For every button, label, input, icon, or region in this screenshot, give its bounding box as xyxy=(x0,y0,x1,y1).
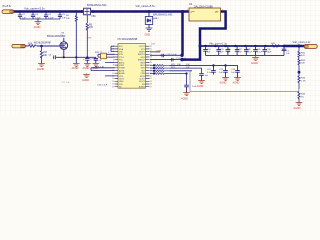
node after FB1 xyxy=(92,10,95,13)
ground AGND at x76 xyxy=(73,64,80,67)
wire bus FB1 to U4 left pin xyxy=(91,10,189,13)
svg-text:AGND: AGND xyxy=(37,68,44,71)
node: bus end dot at net row 1 xyxy=(180,54,183,57)
svg-text:GND: GND xyxy=(156,51,161,53)
svg-text:BRUSHHOL-MG: BRUSHHOL-MG xyxy=(153,12,172,16)
svg-text:SDA: SDA xyxy=(119,48,124,51)
svg-text:AVDD: AVDD xyxy=(119,61,125,64)
wire R16 to gate xyxy=(37,45,62,47)
svg-text:C10 0.1uF: C10 0.1uF xyxy=(97,84,108,86)
svg-text:11: 11 xyxy=(112,73,114,75)
svg-text:R17: R17 xyxy=(43,52,48,54)
svg-text:10K: 10K xyxy=(43,55,48,57)
ground AGND left cluster xyxy=(83,74,90,78)
svg-text:BSS4L200SNWF: BSS4L200SNWF xyxy=(47,35,66,38)
wire Q1 source rail xyxy=(56,49,96,57)
wire Y1 to pins xyxy=(98,54,115,57)
svg-text:AGND: AGND xyxy=(181,98,188,101)
wire rail thick segment into P3 xyxy=(284,45,304,47)
svg-text:Vdc_conn+1.1v: Vdc_conn+1.1v xyxy=(293,40,312,44)
wire ground stub xyxy=(37,19,39,22)
resistor R24 xyxy=(150,73,170,75)
svg-text:AGND: AGND xyxy=(294,107,301,110)
svg-text:BOSHANGL-MG: BOSHANGL-MG xyxy=(87,3,106,7)
svg-text:21: 21 xyxy=(150,76,152,78)
svg-text:SMBJ: SMBJ xyxy=(153,18,159,20)
wire bus vertical drop to U5 pin row xyxy=(181,12,184,56)
U5 internal pin names left column xyxy=(119,46,125,89)
svg-text:R28 4.7K: R28 4.7K xyxy=(95,66,105,68)
capacitor C3 xyxy=(31,12,35,20)
svg-text:AGND: AGND xyxy=(251,62,258,65)
svg-text:SDI: SDI xyxy=(141,70,145,72)
svg-text:2: 2 xyxy=(222,9,223,11)
wire pin row to bus dot 2 xyxy=(150,59,182,61)
svg-text:DIN: DIN xyxy=(119,84,123,86)
wire long bottom net xyxy=(190,71,299,92)
svg-text:C18 0.1uF: C18 0.1uF xyxy=(167,54,178,56)
inductor FB1 xyxy=(84,8,91,15)
capacitor C2 xyxy=(18,12,22,20)
node rail taps xyxy=(204,45,266,47)
node divider junction xyxy=(298,71,301,74)
svg-text:VO: VO xyxy=(215,12,218,14)
svg-text:10K: 10K xyxy=(66,18,70,20)
wire row 65.4 to caps xyxy=(170,64,238,66)
wire row 70.8 right xyxy=(170,70,193,72)
svg-text:VIN: VIN xyxy=(119,52,123,54)
U5 left pins xyxy=(115,46,119,86)
svg-text:AGND: AGND xyxy=(34,26,41,29)
svg-text:U4: U4 xyxy=(189,2,193,6)
node dot at C1 riser xyxy=(283,45,286,48)
svg-text:0.1uF: 0.1uF xyxy=(48,17,54,19)
svg-text:AGND: AGND xyxy=(139,86,145,89)
capacitor C20 xyxy=(199,74,204,81)
svg-text:19: 19 xyxy=(150,81,152,83)
resistor R33 xyxy=(298,72,300,89)
svg-text:1uF: 1uF xyxy=(22,17,26,19)
node C14 tap xyxy=(185,72,187,74)
svg-text:0.1uF: 0.1uF xyxy=(247,52,253,54)
svg-text:STBY: STBY xyxy=(119,65,125,67)
svg-text:16: 16 xyxy=(112,86,114,88)
svg-text:DAL1010+C16B8: DAL1010+C16B8 xyxy=(194,6,213,9)
svg-text:FB1: FB1 xyxy=(92,16,97,18)
svg-text:PGND: PGND xyxy=(119,68,125,70)
ground GND below C23 xyxy=(234,78,241,81)
node gate junction xyxy=(40,45,43,48)
svg-text:AGND: AGND xyxy=(197,85,204,88)
svg-text:31: 31 xyxy=(150,49,152,51)
svg-text:XTLI: XTLI xyxy=(119,54,124,56)
ground below C8 xyxy=(93,64,100,67)
svg-text:GND: GND xyxy=(145,33,151,36)
wire Q1 drain up xyxy=(63,38,65,42)
wire P3 down xyxy=(298,46,300,51)
svg-text:R16: R16 xyxy=(28,44,33,46)
U5 pin numbers right xyxy=(150,46,152,89)
connector P1 xyxy=(2,10,14,14)
svg-text:AGND: AGND xyxy=(119,72,125,75)
svg-text:SCK: SCK xyxy=(141,68,146,70)
svg-text:26: 26 xyxy=(150,62,152,64)
wire left pin stubs xyxy=(91,62,115,76)
resistor R32 xyxy=(298,59,300,73)
svg-text:Vin+5.5v: Vin+5.5v xyxy=(2,5,12,8)
svg-text:0.1uF: 0.1uF xyxy=(35,17,41,19)
svg-text:CLKO: CLKO xyxy=(139,79,145,81)
ground AGND bottom right xyxy=(296,103,303,106)
capacitor C22 xyxy=(223,65,228,77)
capacitor C19 (series marks) xyxy=(170,58,176,61)
svg-text:U5 SRG16828NB: U5 SRG16828NB xyxy=(118,38,138,41)
svg-text:6: 6 xyxy=(113,59,114,61)
capacitor bank C24..C30 xyxy=(203,46,286,55)
node: bus junction at TVS tap xyxy=(148,10,151,13)
svg-text:14: 14 xyxy=(112,81,114,83)
resistor R34 xyxy=(298,92,300,103)
svg-text:Vdc_varies+5.5v: Vdc_varies+5.5v xyxy=(136,4,156,8)
ground GND below D1 xyxy=(146,28,153,31)
svg-text:1.2K: 1.2K xyxy=(301,80,306,82)
resistor FB2 in rail xyxy=(272,45,280,47)
node: bus corner junction xyxy=(181,10,184,13)
U5 right pins xyxy=(146,46,150,86)
svg-text:Vdc_varies+5.5v: Vdc_varies+5.5v xyxy=(24,7,45,11)
wire cap bank bottom rail xyxy=(206,46,287,55)
svg-text:47K: 47K xyxy=(301,55,305,57)
ground AGND below C7 xyxy=(84,64,91,67)
capacitor C4 xyxy=(44,12,48,20)
wire C14 drop xyxy=(186,74,188,86)
module U4 body xyxy=(189,8,221,21)
svg-text:GNDS: GNDS xyxy=(139,52,145,54)
svg-text:INTB: INTB xyxy=(140,76,145,78)
svg-text:10uF: 10uF xyxy=(267,52,272,54)
wire vertical tie x111 xyxy=(111,46,115,51)
svg-text:OUT1: OUT1 xyxy=(119,79,125,81)
svg-text:XTLO: XTLO xyxy=(119,57,125,59)
svg-text:18: 18 xyxy=(150,84,152,86)
ground AGND below cap row xyxy=(35,22,42,25)
node cap row taps xyxy=(212,64,226,66)
svg-text:VDD: VDD xyxy=(119,76,124,78)
ground AGND below R17 xyxy=(38,64,45,67)
resistor R22 xyxy=(150,67,170,69)
capacitor C18 (series marks) xyxy=(160,54,166,57)
svg-text:AGND: AGND xyxy=(83,67,90,70)
node: bus end dot at net row 2 xyxy=(180,58,183,61)
node rail junctions xyxy=(63,56,65,58)
svg-text:AGND: AGND xyxy=(220,81,227,84)
connector P3 xyxy=(304,44,317,48)
connector P2 xyxy=(12,44,25,48)
wire bus tap drop x76 xyxy=(75,12,77,64)
wire P2 to R16 xyxy=(25,45,28,47)
node: junction staircase to Vdc_conn rail xyxy=(199,45,202,48)
ground AGND below C20 xyxy=(198,81,205,84)
wire bus +5.5V from P1 to FB1 xyxy=(13,10,83,13)
svg-text:SDO: SDO xyxy=(140,65,145,67)
svg-text:VOUT: VOUT xyxy=(139,46,145,48)
svg-text:AGND: AGND xyxy=(233,81,240,84)
capacitor C14 xyxy=(184,85,189,92)
capacitor C21 xyxy=(211,65,216,74)
wire row 68.1 right xyxy=(170,68,202,74)
svg-text:0.1uF: 0.1uF xyxy=(207,72,213,74)
svg-text:CSB: CSB xyxy=(141,73,146,75)
svg-text:8: 8 xyxy=(113,65,114,67)
capacitor C6 inline xyxy=(53,55,56,59)
svg-text:MCHL0603RNF: MCHL0603RNF xyxy=(34,41,52,44)
svg-text:1uF: 1uF xyxy=(192,86,196,88)
svg-text:28: 28 xyxy=(150,57,152,59)
svg-text:0.1uF: 0.1uF xyxy=(257,52,263,54)
U5 internal pin names right column xyxy=(138,46,146,89)
svg-text:C11 1uF: C11 1uF xyxy=(62,82,71,84)
wire cap-row bottom rail xyxy=(20,18,60,20)
ground AGND below C22 xyxy=(222,78,229,81)
ground AGND below C14 xyxy=(183,93,190,96)
svg-text:10K: 10K xyxy=(301,63,305,65)
ground AGND below cap bank xyxy=(252,55,259,60)
svg-text:AGND: AGND xyxy=(82,79,89,82)
svg-text:BVDD1: BVDD1 xyxy=(138,54,146,56)
node stack dots xyxy=(153,64,155,74)
wire TVS stub xyxy=(148,12,150,29)
wire pin row 52 xyxy=(150,51,160,53)
capacitor C23 xyxy=(235,65,240,77)
wire row 73.5 to C14 drop xyxy=(170,73,187,75)
op-amp U5 body xyxy=(118,44,146,89)
diode D1 (TVS) xyxy=(145,17,152,25)
node taps on bus xyxy=(19,10,78,12)
svg-text:20: 20 xyxy=(150,78,152,80)
label cap bank designators xyxy=(207,49,272,54)
svg-text:C19 0.1uF: C19 0.1uF xyxy=(176,58,187,60)
wire Vdc_conn rail xyxy=(200,45,299,47)
transistor Q1 xyxy=(60,42,68,50)
svg-text:1: 1 xyxy=(187,9,188,11)
wire FB drop with resistor R9 xyxy=(86,15,88,58)
svg-text:GND: GND xyxy=(119,81,124,83)
svg-text:15: 15 xyxy=(112,84,114,86)
svg-text:32: 32 xyxy=(150,46,152,48)
resistor R16 xyxy=(29,45,37,47)
svg-text:AGND: AGND xyxy=(72,67,79,70)
capacitor C8 xyxy=(94,57,98,63)
capacitor C7 (+) xyxy=(85,57,89,63)
svg-text:13: 13 xyxy=(112,78,114,80)
svg-text:17: 17 xyxy=(150,86,152,88)
U5 pin numbers left xyxy=(112,46,114,89)
node before FB1 xyxy=(80,10,83,13)
wire bus U4 right pin staircase xyxy=(182,12,226,60)
svg-text:AVSS: AVSS xyxy=(119,69,125,72)
resistor R21 xyxy=(150,65,170,67)
node rail/divider dot xyxy=(297,44,300,47)
wire pin row to bus dot 1 xyxy=(150,54,182,56)
resistor R31 xyxy=(298,51,300,59)
svg-text:BOUT: BOUT xyxy=(139,81,145,83)
capacitor C5 xyxy=(58,12,62,20)
resistor R23 xyxy=(150,70,170,72)
svg-text:BVDD2: BVDD2 xyxy=(138,60,146,62)
resistor R17 pulldown xyxy=(40,46,42,64)
